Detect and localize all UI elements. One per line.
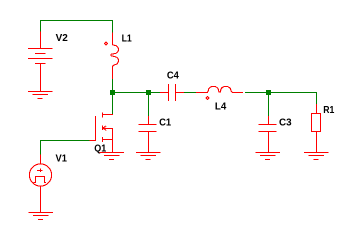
transistor Q1 (NMOS) [90, 112, 114, 152]
wire node A to Q1 drain [112, 92, 114, 114]
svg-text:C1: C1 [159, 117, 171, 129]
wire top from V2 to L1 [40, 21, 113, 33]
capacitor C3 [258, 116, 276, 152]
resistor R1 [312, 104, 321, 152]
ground (C3) [255, 153, 280, 160]
polarity dot L4 [206, 96, 209, 99]
wire C4 to L4 [184, 92, 197, 94]
svg-text:V1: V1 [56, 153, 68, 165]
node C junction [266, 90, 271, 95]
ground (V1) [28, 213, 53, 220]
ground (R1) [304, 153, 329, 160]
node B junction [146, 90, 151, 95]
inductor L4 [196, 86, 243, 92]
wire L1 to node A [112, 79, 114, 93]
wire main bus node A to C4 [112, 92, 160, 94]
svg-text:L4: L4 [215, 101, 227, 113]
svg-text:V2: V2 [56, 32, 68, 44]
wire node C to C3 [268, 92, 270, 116]
capacitor C1 [138, 116, 156, 152]
polarity dot L1 [105, 42, 108, 45]
svg-text:C4: C4 [167, 69, 179, 81]
ground (Q1) [99, 153, 124, 160]
svg-text:L1: L1 [122, 33, 132, 45]
voltage source V1 (pulse source) [29, 154, 51, 212]
inductor L1 [111, 33, 119, 80]
ground (V2) [28, 92, 53, 99]
capacitor C4 [160, 84, 184, 101]
node A junction [110, 90, 115, 95]
wire node B to C1 [148, 92, 150, 116]
wire L4 to node C and R1 corner [245, 93, 317, 105]
wire gate Q1 to V1 [40, 141, 90, 155]
ground (C1) [136, 153, 161, 160]
svg-text:C3: C3 [279, 117, 292, 129]
voltage source V2 (battery) [28, 32, 53, 92]
svg-text:R1: R1 [323, 104, 334, 116]
